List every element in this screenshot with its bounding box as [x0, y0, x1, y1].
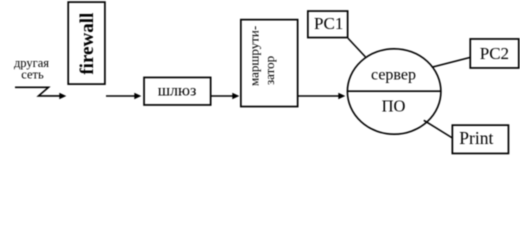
node: Print box: [452, 125, 508, 153]
node: маршрутизатор box: [241, 20, 298, 107]
wire: PC1 to сервер: [348, 38, 365, 57]
node: PC1 box: [308, 11, 348, 38]
wire: divider chord inside ellipse: [348, 90, 442, 92]
svg-text:сеть: сеть: [21, 68, 44, 82]
node: другая сеть label: [14, 56, 49, 82]
arrowhead into маршрутизатор: [232, 93, 239, 100]
wire: arrow маршрутизатор to сервер: [298, 95, 339, 97]
svg-text:Print: Print: [459, 128, 493, 148]
wire: arrow шлюз to маршрутизатор: [211, 95, 233, 97]
svg-text:PC1: PC1: [314, 14, 343, 33]
wire: сервер to Print: [424, 120, 452, 137]
svg-text:firewall: firewall: [77, 13, 98, 75]
wire: сервер to PC2: [433, 57, 471, 67]
node: шлюз box: [144, 77, 211, 105]
svg-text:сервер: сервер: [371, 66, 416, 83]
arrowhead into шлюз: [134, 93, 141, 100]
wire: zigzag link from другая сеть to firewall: [15, 87, 61, 96]
svg-text:ПО: ПО: [382, 97, 406, 116]
svg-text:шлюз: шлюз: [158, 82, 197, 99]
arrowhead into сервер ellipse: [338, 93, 345, 100]
arrowhead into firewall: [59, 93, 66, 100]
node: PC2 box: [470, 39, 519, 68]
node: сервер / ПО ellipse: [347, 49, 441, 134]
wire: arrow firewall to шлюз: [106, 95, 135, 97]
node: firewall box: [68, 2, 105, 84]
svg-text:PC2: PC2: [480, 44, 509, 63]
